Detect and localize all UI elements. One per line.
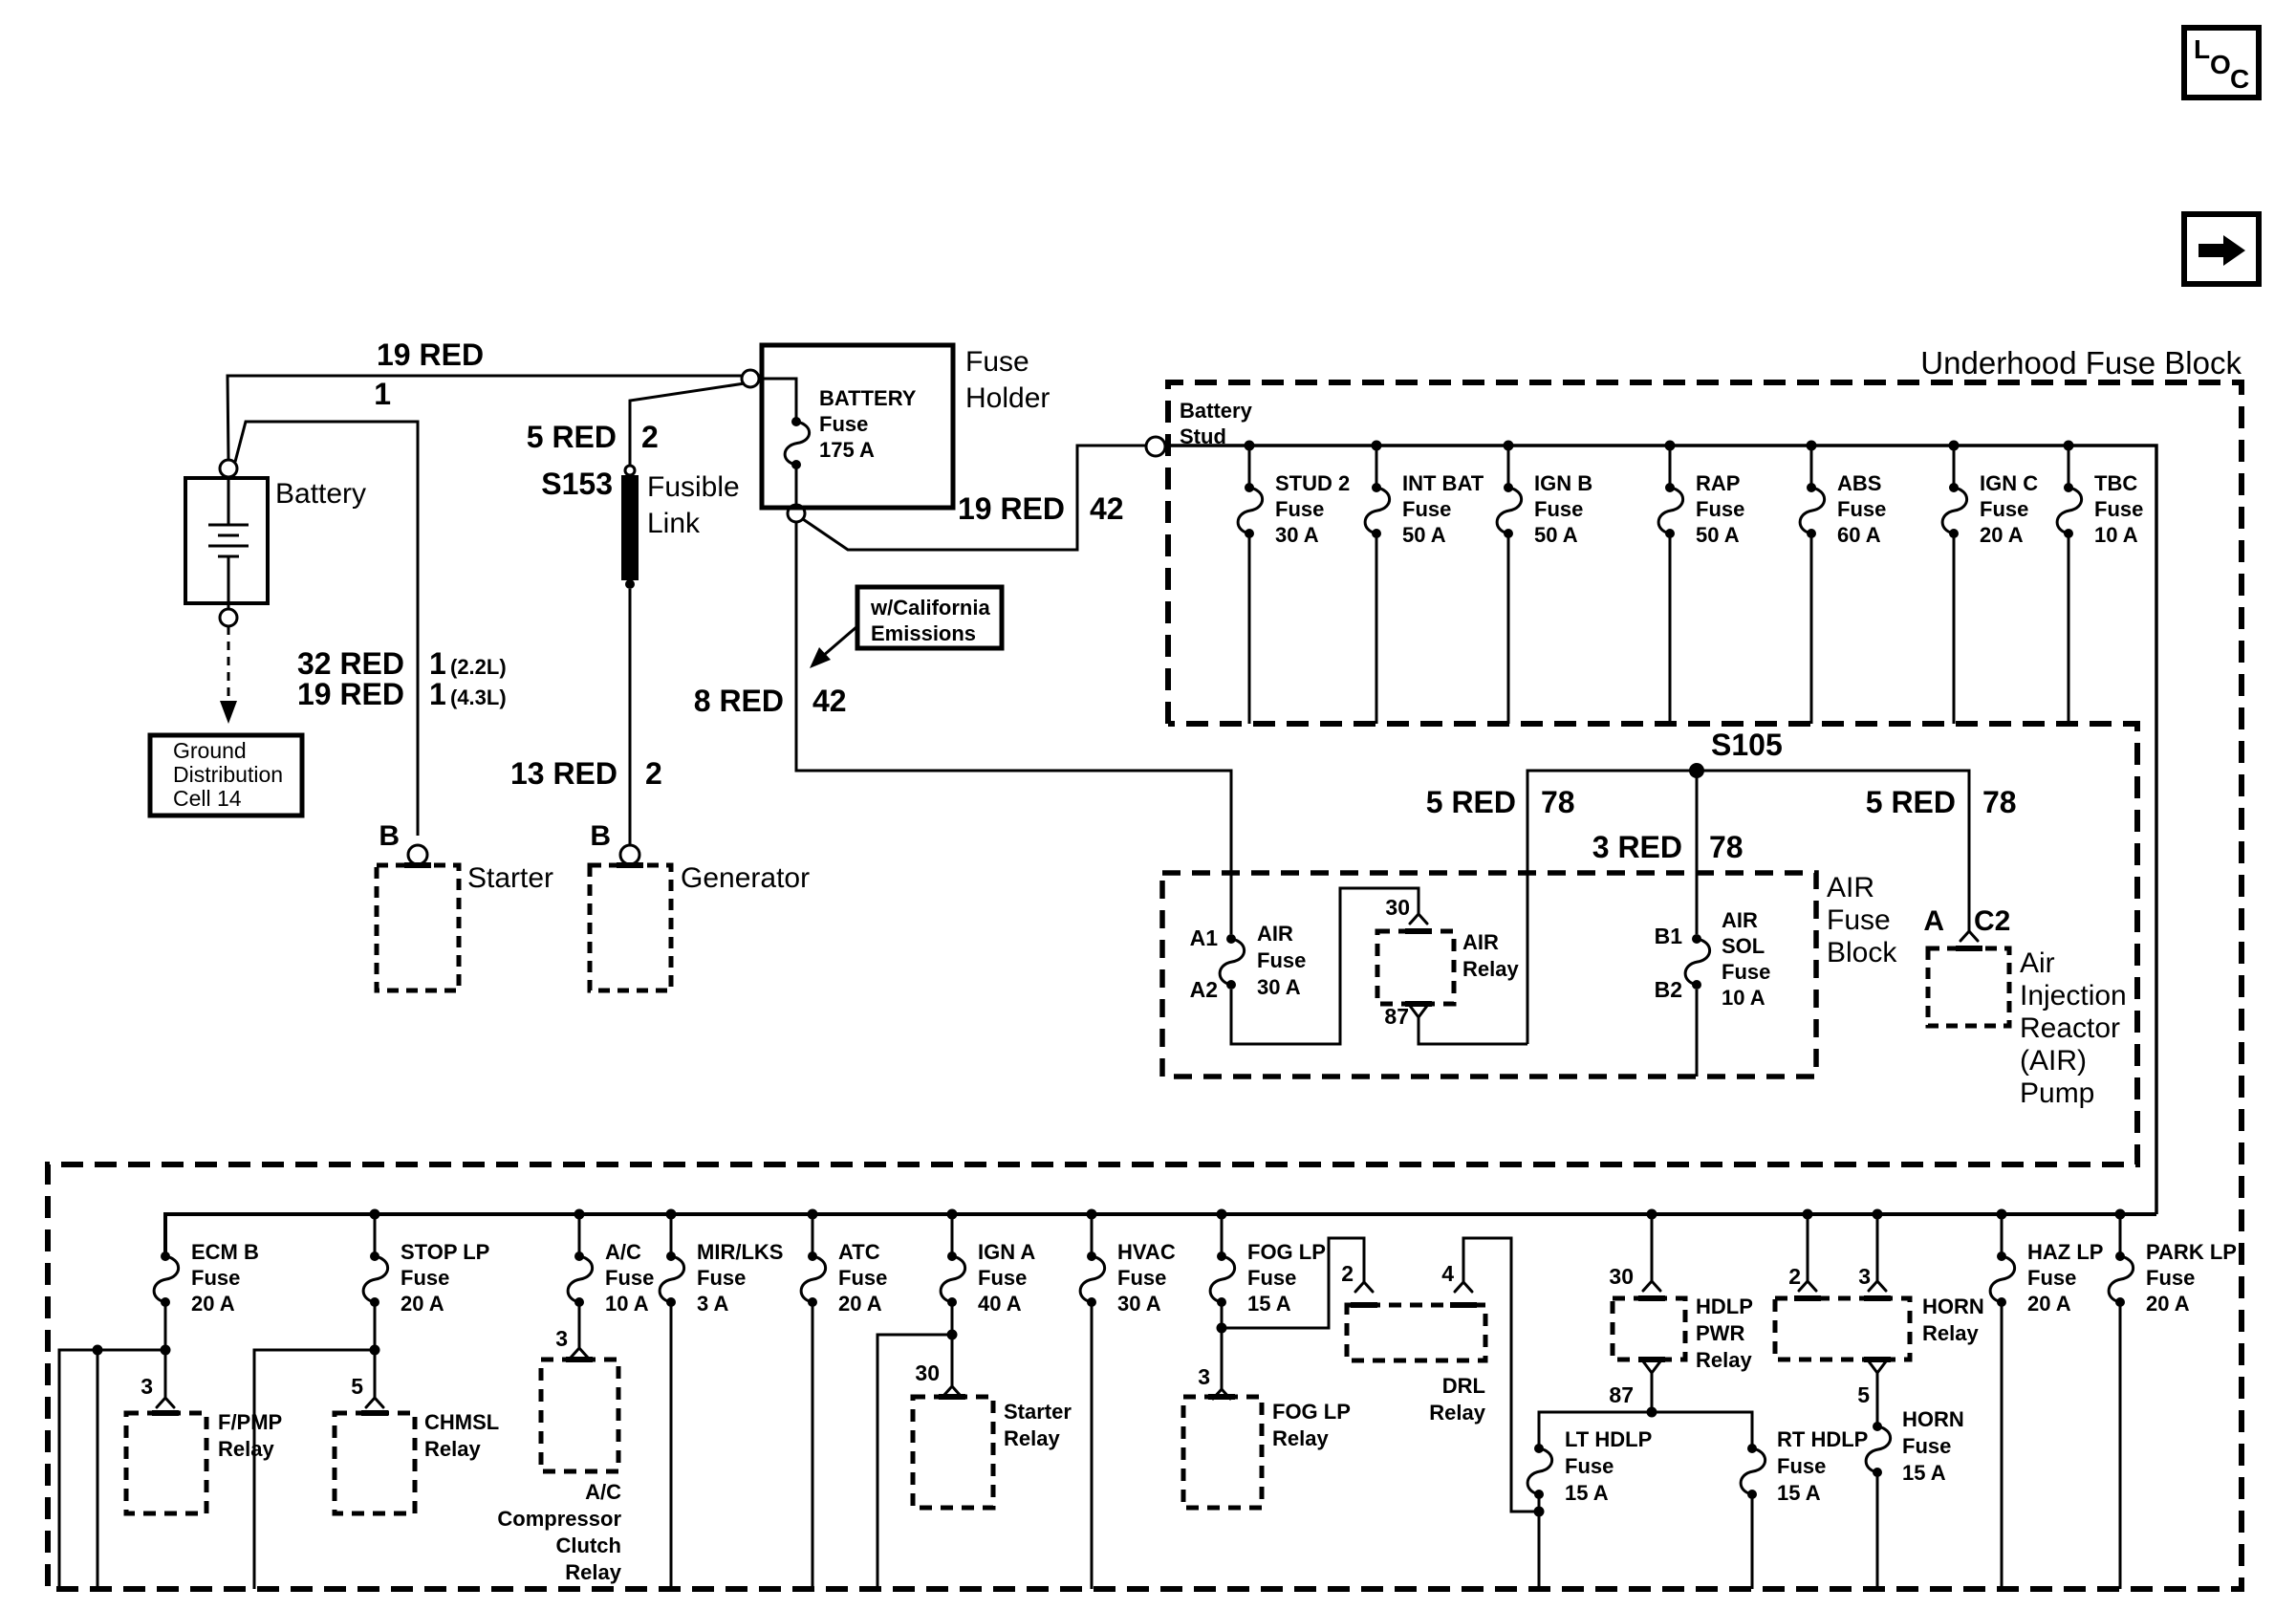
svg-text:PWR: PWR [1696,1321,1744,1345]
fuse INT BAT [1365,471,1484,547]
fuse holder box [762,345,953,508]
wire 5 RED fusible link to fuse holder [630,383,745,466]
fuse HORN 15A [1866,1422,1891,1477]
svg-text:HAZ LP: HAZ LP [2027,1240,2103,1264]
svg-text:Fuse: Fuse [978,1266,1027,1290]
wire stub to IGN B fuse [1504,441,1514,451]
fuse ECM B [154,1240,259,1316]
svg-text:C2: C2 [1974,905,2010,937]
svg-text:A1: A1 [1190,925,1219,950]
svg-text:Fuse: Fuse [1827,904,1891,936]
splice S153 fusible link [541,466,639,589]
fuse STUD 2 [1238,471,1350,547]
svg-text:50 A: 50 A [1534,523,1578,547]
junction at STOP LP [370,1209,380,1220]
wire IGN A branch left [877,1335,952,1589]
svg-text:Block: Block [1827,937,1897,968]
HORN relay box [1775,1298,1910,1360]
fuse HVAC [1080,1240,1176,1316]
svg-text:ABS: ABS [1837,471,1881,495]
svg-text:Injection: Injection [2020,980,2127,1012]
svg-text:LT HDLP: LT HDLP [1565,1427,1652,1451]
svg-text:3: 3 [1858,1264,1871,1289]
svg-text:5 RED: 5 RED [1866,785,1956,819]
svg-text:Fuse: Fuse [1402,497,1451,521]
svg-text:B: B [590,820,611,852]
svg-text:Link: Link [647,508,701,539]
fuse ATC [801,1240,887,1316]
svg-text:78: 78 [1982,785,2017,819]
svg-text:13 RED: 13 RED [510,756,617,791]
svg-text:Relay: Relay [1004,1426,1060,1450]
svg-text:Compressor: Compressor [497,1507,621,1531]
svg-text:Fuse: Fuse [2146,1266,2195,1290]
svg-text:A2: A2 [1190,977,1218,1002]
svg-text:Relay: Relay [1272,1426,1329,1450]
svg-text:AIR: AIR [1827,872,1874,903]
svg-text:30: 30 [1609,1264,1634,1289]
fuse AIR 30A [1220,934,1245,990]
svg-text:Fusible: Fusible [647,471,740,503]
svg-text:Reactor: Reactor [2020,1012,2120,1044]
svg-text:IGN B: IGN B [1534,471,1592,495]
wire FOG LP fuse output [1221,1302,1224,1389]
junction at HAZ LP [1997,1209,2007,1220]
fuse PARK LP [2109,1240,2237,1316]
svg-text:Battery: Battery [275,478,366,510]
bottom bus wire [165,1214,2156,1256]
AIR relay box [1377,931,1454,1004]
svg-text:TBC: TBC [2094,471,2137,495]
svg-text:20 A: 20 A [191,1292,235,1316]
wire HVAC fuse output [1091,1302,1094,1589]
fuse TBC [2057,471,2143,547]
wire stub to STUD 2 fuse [1245,441,1255,451]
svg-text:w/California: w/California [870,596,990,620]
wire STUD 2 fuse output [1248,533,1251,724]
fuse RAP [1658,471,1744,547]
svg-text:4: 4 [1441,1261,1454,1286]
fuse FOG LP [1210,1240,1326,1316]
svg-text:Fuse: Fuse [1722,960,1770,984]
svg-text:PARK LP: PARK LP [2146,1240,2237,1264]
svg-text:Relay: Relay [1922,1321,1979,1345]
svg-text:Fuse: Fuse [605,1266,654,1290]
svg-text:Fuse: Fuse [2027,1266,2076,1290]
wire 13 RED fusible link to generator [629,589,632,845]
fuse A/C [568,1240,654,1316]
svg-text:DRL: DRL [1442,1374,1485,1398]
wire stub to IGN C fuse [1949,441,1960,451]
A/C relay pin 3 [571,1348,588,1358]
svg-text:3 A: 3 A [697,1292,729,1316]
svg-text:10 A: 10 A [2094,523,2138,547]
svg-text:Fuse: Fuse [2094,497,2143,521]
AIR relay pin 30 [1410,914,1427,924]
svg-text:10 A: 10 A [605,1292,649,1316]
svg-text:AIR: AIR [1722,908,1758,932]
fuse RT HDLP 15A [1741,1444,1765,1499]
wire stub to RAP fuse [1665,441,1676,451]
svg-text:30: 30 [1385,895,1410,920]
fuse LT HDLP 15A [1527,1444,1552,1499]
svg-text:15 A: 15 A [1902,1461,1946,1485]
svg-text:Fuse: Fuse [1837,497,1886,521]
svg-text:20 A: 20 A [838,1292,882,1316]
AIR relay pin 87 [1410,1006,1427,1017]
svg-text:B2: B2 [1655,977,1682,1002]
LOC legend box [2184,28,2259,98]
fuse holder bottom connector circle [788,505,805,522]
wire MIR/LKS fuse output [670,1302,673,1589]
wire RAP fuse output [1669,533,1672,724]
wire AIR SOL fuse output [1696,990,1699,1077]
svg-text:Starter: Starter [1004,1400,1072,1424]
svg-text:Pump: Pump [2020,1077,2094,1109]
fuse IGN C [1942,471,2038,547]
svg-text:S105: S105 [1711,728,1783,762]
svg-text:20 A: 20 A [1980,523,2024,547]
svg-text:5 RED: 5 RED [527,420,617,454]
svg-text:Fuse: Fuse [1902,1434,1951,1458]
svg-text:Fuse: Fuse [191,1266,240,1290]
svg-text:Fuse: Fuse [1696,497,1744,521]
svg-text:Holder: Holder [965,382,1050,414]
FOG LP relay box [1183,1397,1262,1508]
HDLP PWR relay pin 30 [1643,1281,1660,1291]
svg-text:INT BAT: INT BAT [1402,471,1484,495]
svg-text:L: L [2194,34,2210,64]
battery stud connector [1146,437,1165,456]
svg-text:Generator: Generator [681,862,810,894]
wire INT BAT fuse output [1375,533,1378,724]
svg-text:30 A: 30 A [1117,1292,1161,1316]
junction at ATC [808,1209,818,1220]
svg-text:A/C: A/C [605,1240,641,1264]
svg-text:20 A: 20 A [401,1292,444,1316]
svg-text:IGN C: IGN C [1980,471,2038,495]
svg-text:30 A: 30 A [1257,975,1301,999]
svg-text:HVAC: HVAC [1117,1240,1176,1264]
wire ECM B branch 2 [93,1345,103,1356]
svg-text:19 RED: 19 RED [958,491,1065,526]
starter relay pin 30 [943,1386,961,1396]
DRL relay pin 4 [1455,1282,1472,1292]
svg-text:19 RED: 19 RED [377,337,484,372]
wire IGN B fuse output [1507,533,1510,724]
fuse MIR/LKS [660,1240,783,1316]
svg-text:AIR: AIR [1462,930,1499,954]
wire ABS fuse output [1810,533,1813,724]
wire to HORN relay pin 3 [1873,1209,1883,1220]
svg-text:5: 5 [1857,1382,1870,1407]
svg-text:Clutch: Clutch [556,1534,621,1557]
starter connector box [377,865,459,990]
svg-text:Fuse: Fuse [1257,948,1306,972]
wire FOG LP to DRL relay pin 2 [1222,1238,1364,1328]
svg-text:Relay: Relay [1696,1348,1752,1372]
wire HORN fuse output [1876,1473,1879,1589]
svg-text:AIR: AIR [1257,922,1293,946]
battery symbol [185,478,268,609]
svg-text:1: 1 [374,377,391,411]
junction at FOG LP [1217,1209,1227,1220]
splice S105 [1689,763,1704,778]
w/California Emissions note box [857,587,1002,648]
wire HAZ LP output [2001,1302,2004,1589]
svg-text:8 RED: 8 RED [694,684,784,718]
svg-text:40 A: 40 A [978,1292,1022,1316]
CHMSL relay pin 5 [366,1398,383,1407]
svg-text:C: C [2230,64,2249,94]
svg-text:Fuse: Fuse [401,1266,449,1290]
fuse BATTERY 175A [785,417,810,469]
HDLP PWR relay pin 87 [1643,1361,1660,1373]
top bus wire [1165,446,2156,1214]
wire STOP LP fuse output [374,1302,377,1398]
A/C compressor clutch relay box [541,1360,618,1471]
wire ATC fuse output [812,1302,814,1589]
fuse IGN A [941,1240,1035,1316]
fuse STOP LP [363,1240,489,1316]
wire STOP LP branch left [254,1350,375,1589]
svg-text:Cell 14: Cell 14 [173,786,242,811]
svg-text:5 RED: 5 RED [1426,785,1516,819]
svg-text:HORN: HORN [1922,1295,1984,1318]
svg-text:STUD 2: STUD 2 [1275,471,1350,495]
svg-text:15 A: 15 A [1565,1481,1609,1505]
junction at IGN A [947,1209,958,1220]
svg-text:Fuse: Fuse [1565,1454,1614,1478]
junction at A/C [574,1209,585,1220]
wire HORN relay 5 to HORN fuse [1876,1373,1879,1426]
svg-text:Ground: Ground [173,738,247,763]
svg-text:Fuse: Fuse [965,346,1029,378]
junction at PARK LP [2115,1209,2126,1220]
svg-text:STOP LP: STOP LP [401,1240,489,1264]
fuse ABS [1800,471,1886,547]
svg-text:CHMSL: CHMSL [424,1410,499,1434]
battery positive terminal [220,460,237,477]
fuse HAZ LP [1990,1240,2103,1316]
fuse IGN B [1497,471,1592,547]
starter relay box [913,1397,993,1508]
svg-text:ECM B: ECM B [191,1240,259,1264]
generator connector box [590,865,671,990]
svg-text:32 RED: 32 RED [297,646,404,681]
svg-text:15 A: 15 A [1777,1481,1821,1505]
svg-text:50 A: 50 A [1696,523,1740,547]
junction at HVAC [1087,1209,1097,1220]
svg-text:20 A: 20 A [2027,1292,2071,1316]
svg-text:Distribution: Distribution [173,762,283,787]
wire stub to TBC fuse [2064,441,2074,451]
F/PMP relay box [126,1413,206,1513]
svg-text:3: 3 [141,1374,153,1399]
svg-text:Fuse: Fuse [1534,497,1583,521]
svg-text:Relay: Relay [565,1560,621,1584]
wire to HDLP PWR relay pin 30 [1647,1209,1657,1220]
forward arrow box [2184,214,2259,284]
svg-text:78: 78 [1541,785,1575,819]
wire RT HDLP output [1751,1494,1754,1589]
svg-text:3: 3 [555,1326,568,1351]
svg-text:20 A: 20 A [2146,1292,2190,1316]
svg-text:2: 2 [641,420,659,454]
wire 1 battery to starter [235,422,418,836]
wire A/C fuse output [578,1302,581,1348]
wire IGN A fuse output [951,1302,954,1386]
wire TBC fuse output [2068,533,2070,724]
fuse AIR SOL 10A [1685,934,1710,990]
svg-text:Fuse: Fuse [838,1266,887,1290]
svg-text:Battery: Battery [1180,399,1253,423]
svg-text:19 RED: 19 RED [297,677,404,711]
underhood fuse block dashed outline [48,382,2242,1589]
svg-text:S153: S153 [541,467,613,501]
svg-text:Air: Air [2020,947,2055,979]
emissions arrow [823,626,857,656]
svg-text:30 A: 30 A [1275,523,1319,547]
svg-text:Relay: Relay [218,1437,274,1461]
svg-text:Fuse: Fuse [819,412,868,436]
svg-text:2: 2 [645,756,662,791]
svg-text:1: 1 [429,677,446,711]
svg-text:5: 5 [351,1374,363,1399]
DRL relay pin 2 [1355,1282,1373,1292]
svg-text:FOG LP: FOG LP [1272,1400,1351,1424]
wire 3 RED 78 S105 to AIR SOL fuse [1696,771,1699,934]
svg-text:78: 78 [1709,830,1744,864]
wire 19 RED 42 fuse holder to battery stud [803,446,1145,550]
wire 87 to headlamp fuses [1651,1373,1654,1412]
svg-text:10 A: 10 A [1722,986,1765,1010]
F/PMP relay pin 3 [157,1398,174,1407]
svg-text:175 A: 175 A [819,438,875,462]
svg-text:BATTERY: BATTERY [819,386,917,410]
CHMSL relay box [335,1413,415,1513]
wire PARK LP output [2119,1302,2122,1589]
svg-text:87: 87 [1384,1004,1409,1029]
svg-text:FOG LP: FOG LP [1247,1240,1326,1264]
wire ECM B branch left [59,1350,165,1589]
wire 5 RED 78 left (S105 to AIR relay 87) [1527,771,1969,1044]
FOG LP relay pin 3 [1213,1389,1230,1399]
svg-text:B: B [379,820,400,852]
svg-text:87: 87 [1609,1382,1634,1407]
svg-text:(AIR): (AIR) [2020,1045,2087,1077]
svg-text:42: 42 [812,684,847,718]
wire 19 RED battery to fuse holder [227,376,742,460]
svg-text:3 RED: 3 RED [1592,830,1682,864]
AIR fuse block dashed box [1162,873,1816,1077]
svg-text:42: 42 [1090,491,1124,526]
svg-text:Fuse: Fuse [1980,497,2028,521]
svg-text:Relay: Relay [1429,1401,1485,1425]
wire inside fuse holder [759,379,796,420]
svg-text:HORN: HORN [1902,1407,1964,1431]
svg-text:Relay: Relay [1462,957,1519,981]
svg-text:ATC: ATC [838,1240,880,1264]
svg-text:(2.2L): (2.2L) [450,655,507,679]
svg-text:Underhood Fuse Block: Underhood Fuse Block [1920,345,2242,381]
svg-text:SOL: SOL [1722,934,1765,958]
svg-text:60 A: 60 A [1837,523,1881,547]
svg-text:HDLP: HDLP [1696,1295,1753,1318]
wire stub to INT BAT fuse [1372,441,1382,451]
svg-text:A: A [1923,905,1944,937]
wire DRL pin 4 to LT HDLP junction [1463,1238,1539,1512]
svg-text:15 A: 15 A [1247,1292,1291,1316]
svg-text:30: 30 [915,1360,940,1385]
svg-text:O: O [2210,50,2231,79]
svg-text:Fuse: Fuse [1275,497,1324,521]
ground wire (dashed) [227,626,230,701]
svg-text:Relay: Relay [424,1437,481,1461]
wire to HORN relay pin 2 [1803,1209,1813,1220]
svg-text:RAP: RAP [1696,471,1740,495]
wire AIR fuse A2 to AIR relay 30 [1231,888,1419,1044]
svg-text:1: 1 [429,646,446,681]
svg-text:Fuse: Fuse [1247,1266,1296,1290]
svg-text:Emissions: Emissions [871,621,976,645]
svg-text:B1: B1 [1655,924,1683,948]
svg-text:(4.3L): (4.3L) [450,685,507,709]
battery negative terminal [220,609,237,626]
wire LT HDLP output [1538,1494,1541,1589]
junction at MIR/LKS [666,1209,677,1220]
wire stub to ABS fuse [1807,441,1817,451]
wire ECM B fuse output [164,1302,167,1398]
air injection reactor pump connector box [1928,948,2009,1026]
svg-text:RT HDLP: RT HDLP [1777,1427,1868,1451]
svg-text:Fuse: Fuse [1117,1266,1166,1290]
svg-text:Starter: Starter [467,862,553,894]
svg-text:Fuse: Fuse [697,1266,746,1290]
svg-text:2: 2 [1341,1261,1354,1286]
fuse holder connector circle [742,370,759,387]
svg-text:A/C: A/C [585,1480,621,1504]
svg-text:MIR/LKS: MIR/LKS [697,1240,783,1264]
air pump pin [1960,931,1978,941]
wire IGN C fuse output [1953,533,1956,724]
ground distribution box [150,735,302,816]
DRL relay box [1347,1305,1485,1360]
svg-text:F/PMP: F/PMP [218,1410,282,1434]
wire 8 RED 42 to AIR fuse [796,522,1231,934]
HDLP PWR relay box [1613,1298,1685,1360]
svg-text:3: 3 [1198,1364,1210,1389]
svg-text:Fuse: Fuse [1777,1454,1826,1478]
HORN relay pin 5 [1869,1361,1886,1373]
wire AIR relay 87 output [1419,1017,1527,1044]
svg-text:50 A: 50 A [1402,523,1446,547]
svg-text:2: 2 [1788,1264,1801,1289]
svg-text:IGN A: IGN A [978,1240,1035,1264]
